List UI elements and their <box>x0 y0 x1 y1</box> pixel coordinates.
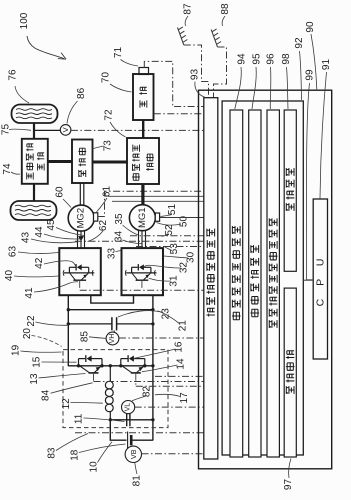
CPU bar 91 <box>313 199 327 359</box>
wheel 76 (front tire) <box>12 105 58 124</box>
midpoint tap to reactor <box>109 366 111 382</box>
crank box 71 <box>139 68 149 75</box>
speed sensor V 86 <box>34 129 60 131</box>
motor MG1 50 <box>129 205 155 231</box>
converter switch Q13 with diode 15 <box>78 359 80 366</box>
gearbox 74 (drive gear device) <box>22 139 48 184</box>
program bar 96 (boost target voltage change) <box>267 110 279 457</box>
svg-text:76: 76 <box>8 69 19 81</box>
svg-text:94: 94 <box>237 53 248 65</box>
dash-dot sensor line from V to ECU interface <box>71 129 204 131</box>
svg-text:70: 70 <box>101 72 112 84</box>
ground 88 <box>211 30 217 48</box>
svg-text:11: 11 <box>74 413 85 424</box>
svg-text:88: 88 <box>220 3 231 15</box>
svg-text:95: 95 <box>252 53 263 65</box>
wheel 77 (rear tire) <box>11 201 57 220</box>
svg-text:98: 98 <box>281 53 292 65</box>
resolver 61 dash-dot line to ECU <box>98 191 204 216</box>
svg-text:84: 84 <box>41 389 52 401</box>
battery dash-dot sensor line 83 <box>75 432 204 434</box>
current sensor dash-dot 53 line <box>136 246 204 248</box>
svg-text:30: 30 <box>186 251 197 263</box>
converter switch Q14 with diode 16 <box>120 359 122 366</box>
svg-text:17: 17 <box>179 392 190 404</box>
svg-text:60: 60 <box>55 186 66 198</box>
svg-text:22: 22 <box>26 315 37 327</box>
resolver 61 on MG2 <box>94 213 98 221</box>
svg-text:87: 87 <box>183 3 194 15</box>
capacitor 23 plates <box>111 317 113 330</box>
svg-text:97: 97 <box>283 479 294 491</box>
svg-text:74: 74 <box>2 163 13 175</box>
engine 70 <box>142 120 144 138</box>
axle shaft 75 <box>33 123 35 139</box>
svg-text:35: 35 <box>114 213 125 225</box>
svg-text:12: 12 <box>61 398 72 410</box>
svg-text:63: 63 <box>8 246 19 258</box>
output shaft box 73 <box>48 160 72 163</box>
reactor 12 (coil) <box>105 381 113 411</box>
resolver 51 on MG1 <box>155 213 159 221</box>
svg-text:100: 100 <box>19 12 30 29</box>
MG2 three-phase lines 43 44 45 <box>77 231 79 249</box>
svg-text:VL: VL <box>125 403 132 412</box>
svg-text:V: V <box>61 127 70 132</box>
svg-text:23: 23 <box>161 308 172 320</box>
resolver 51 line to interface <box>160 217 204 219</box>
VH dash-dot sensor line <box>119 337 204 339</box>
battery 10 loop <box>110 420 153 440</box>
svg-text:71: 71 <box>113 47 124 59</box>
program bar 94 (intermittent boost operation) <box>230 110 243 457</box>
leader arrow for 100 <box>27 36 64 59</box>
svg-text:MG1: MG1 <box>137 207 148 228</box>
svg-text:86: 86 <box>76 87 87 99</box>
reactor to battery-line junction <box>109 412 111 420</box>
svg-text:32: 32 <box>179 262 190 274</box>
gate dash-dot lines of converter to ECU <box>155 375 204 377</box>
svg-text:93: 93 <box>190 69 201 81</box>
svg-text:62: 62 <box>98 220 109 232</box>
inter-inverter link <box>91 295 134 303</box>
bus link upper <box>68 309 153 311</box>
svg-text:VH: VH <box>109 334 116 344</box>
battery plates 18 <box>127 432 129 450</box>
current sensor arrow on MG2 phase <box>78 236 84 241</box>
dashed boundary 20 of converter <box>63 350 168 428</box>
svg-text:21: 21 <box>178 320 189 332</box>
svg-text:41: 41 <box>24 287 35 299</box>
svg-text:15: 15 <box>32 356 43 368</box>
svg-text:99: 99 <box>304 69 315 81</box>
svg-text:85: 85 <box>79 331 90 343</box>
positive rail (MG2 inverter to converter) <box>67 295 69 366</box>
svg-text:53: 53 <box>169 243 180 255</box>
bus link with smoothing capacitor 23 <box>68 323 112 325</box>
converter main wire <box>68 365 153 367</box>
svg-text:72: 72 <box>104 109 115 121</box>
current sensor dash-dot 62 line <box>75 240 204 242</box>
svg-text:14: 14 <box>176 358 187 370</box>
svg-text:91: 91 <box>321 59 332 71</box>
power split mechanism 72 <box>93 161 128 164</box>
svg-text:81: 81 <box>131 475 142 487</box>
svg-text:52: 52 <box>164 224 175 236</box>
svg-text:83: 83 <box>46 447 57 459</box>
MG1 three-phase lines 33 34 35 <box>138 231 140 250</box>
inner program box 92 <box>222 101 303 455</box>
svg-text:MG2: MG2 <box>76 208 87 229</box>
svg-text:VB: VB <box>129 449 138 459</box>
svg-text:43: 43 <box>21 232 32 244</box>
VL dash-dot line to interface <box>135 406 204 408</box>
svg-text:82: 82 <box>141 386 152 398</box>
svg-text:96: 96 <box>266 53 277 65</box>
svg-text:45: 45 <box>46 219 57 231</box>
inverter 30 (for MG1) <box>122 248 164 295</box>
dash-dot engine control line 93-path <box>144 61 204 106</box>
inverter 40 (for MG2) <box>59 248 101 295</box>
bus link 99 (inner box to CPU) <box>303 279 313 281</box>
ground 87 <box>178 28 184 46</box>
shaft 73 to MG2 (double line) <box>79 183 81 206</box>
voltage sensor VB 81 <box>125 446 141 462</box>
MG2 sensor lines to interface <box>108 195 204 197</box>
svg-text:16: 16 <box>174 341 185 353</box>
svg-text:40: 40 <box>4 270 15 282</box>
svg-text:C P U: C P U <box>314 254 326 307</box>
svg-text:73: 73 <box>103 140 114 152</box>
svg-text:20: 20 <box>22 328 33 340</box>
motor MG2 60 <box>68 205 94 231</box>
svg-text:42: 42 <box>34 257 45 269</box>
VB dash-dot line to interface <box>142 453 204 455</box>
shaft 72 to MG1 (engine shaft, thick) <box>141 184 144 206</box>
control program bar 98 <box>284 110 296 271</box>
negative rail (MG1 inverter down to battery) <box>152 295 154 440</box>
battery top wire <box>110 419 153 421</box>
svg-text:44: 44 <box>34 226 45 238</box>
current sensor dash-dot 52 line <box>130 235 204 237</box>
svg-text:19: 19 <box>11 344 22 356</box>
svg-text:92: 92 <box>294 37 305 49</box>
voltage sensor VL 82 with capacitor 11 <box>122 401 135 414</box>
device & sensor interface bar 93 <box>204 98 218 459</box>
gate control dash-dot line from inverters to ECU <box>80 289 204 291</box>
svg-text:33: 33 <box>107 248 118 260</box>
svg-text:90: 90 <box>305 21 316 33</box>
control data bar 97 <box>284 288 296 457</box>
svg-text:51: 51 <box>167 204 178 216</box>
ECU outer box 90 <box>199 90 332 469</box>
svg-text:61: 61 <box>102 186 113 198</box>
voltage sensor VH 85 <box>113 330 115 332</box>
program bar 95 (threshold switching) <box>249 110 261 457</box>
svg-text:18: 18 <box>69 449 80 461</box>
svg-text:13: 13 <box>29 373 40 385</box>
